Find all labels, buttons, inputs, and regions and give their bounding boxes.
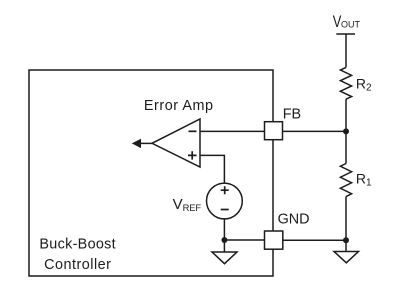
wire node to GND pin [224,239,264,241]
wire GND pin to ground node [283,239,346,241]
svg-text:Controller: Controller [44,257,111,273]
ground internal [212,252,237,264]
VREF plus sign [221,186,229,194]
voltage source VREF [207,183,243,219]
wire R2 to FB node [345,99,347,131]
op-amp inverting input minus sign [189,130,197,132]
label VOUT [333,13,361,31]
op-amp output wire [139,142,153,144]
wire inverting input to FB pin [200,130,265,132]
op-amp U1 [152,119,200,167]
wire node to output ground [345,240,347,251]
resistor R2 [340,67,351,99]
pin GND [265,231,283,249]
wire node to internal ground [223,240,225,252]
ground output divider [334,252,359,263]
op-amp output arrowhead [132,139,141,148]
svg-text:FB: FB [283,106,301,122]
buck-boost controller box [29,70,273,276]
VOUT terminal bar [336,33,355,35]
op-amp non-inverting input plus sign [188,151,197,159]
node R1 ground junction [343,237,349,243]
wire VREF to ground node [223,219,225,240]
resistor R1 [340,164,351,197]
wire FB pin to node [283,130,347,132]
svg-text:Error Amp: Error Amp [144,98,214,114]
node FB junction [343,128,349,134]
pin FB [265,122,283,140]
wire VOUT to R2 [345,34,347,67]
wire non-inverting input to VREF source [200,155,224,183]
svg-text:GND: GND [278,212,310,228]
node VREF ground junction [221,237,227,243]
VREF minus sign [221,209,229,211]
svg-text:Buck-Boost: Buck-Boost [39,237,116,253]
wire R1 to ground node [345,197,347,241]
wire node to R1 [345,131,347,163]
svg-text:OUT: OUT [341,20,361,30]
